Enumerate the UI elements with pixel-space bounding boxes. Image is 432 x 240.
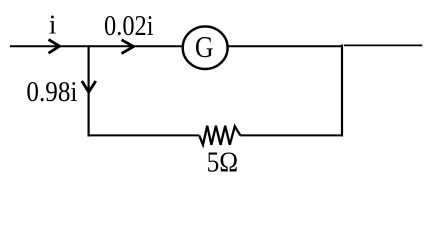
- svg-text:0.02i: 0.02i: [104, 10, 154, 42]
- arrow: 0.98i downward arrowhead: [82, 81, 96, 92]
- svg-text:G: G: [195, 29, 214, 64]
- wire: galvanometer to right junction: [227, 45, 343, 47]
- wire: top right horizontal (output): [344, 44, 422, 46]
- wire: bottom right segment: [240, 134, 343, 136]
- wire: right vertical branch: [341, 45, 343, 137]
- wire: top left horizontal (input to galvanometer): [10, 45, 183, 47]
- galvanometer G circle: [183, 26, 228, 69]
- arrow: 0.02i arrowhead: [122, 40, 134, 54]
- svg-text:i: i: [49, 10, 57, 40]
- arrow: current i arrowhead: [49, 40, 60, 54]
- wire: left vertical branch: [87, 45, 89, 136]
- wire: bottom left segment: [88, 134, 200, 136]
- svg-text:0.98i: 0.98i: [26, 76, 77, 108]
- resistor 5 ohm zigzag: [199, 126, 240, 145]
- svg-text:5Ω: 5Ω: [207, 147, 239, 179]
